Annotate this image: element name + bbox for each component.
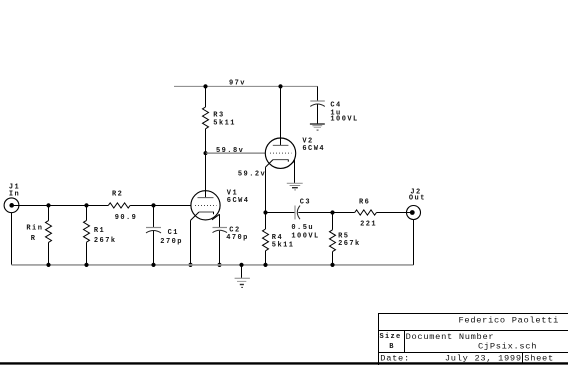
node 97v rail wire — [174, 85, 318, 87]
ground symbol main — [235, 278, 250, 287]
junction R4 bottom — [263, 263, 267, 267]
wire V2 cathode ground lead — [294, 160, 296, 184]
wire J2 down to rail — [413, 220, 415, 265]
ground under V2 — [287, 183, 303, 190]
svg-text:R3: R3 — [213, 111, 224, 119]
wire ground rail — [12, 264, 414, 266]
junction R5 bottom — [330, 263, 334, 267]
junction R5 top — [330, 210, 334, 214]
svg-text:267k: 267k — [94, 237, 117, 245]
junction V1 cathode rail — [188, 263, 192, 267]
resistor Rin — [46, 205, 52, 265]
svg-text:59.2v: 59.2v — [238, 170, 266, 178]
svg-text:Document Number: Document Number — [406, 332, 495, 342]
junction Rin bottom — [46, 263, 50, 267]
page bottom border — [0, 362, 568, 364]
svg-text:Out: Out — [409, 195, 426, 203]
svg-text:6CW4: 6CW4 — [302, 145, 325, 153]
svg-text:R6: R6 — [359, 198, 370, 206]
triode V1 — [191, 191, 221, 221]
triode V2 — [265, 138, 295, 168]
junction at R3 top — [203, 84, 207, 88]
svg-text:90.9: 90.9 — [115, 214, 138, 222]
resistor R5 — [330, 213, 336, 265]
junction C1 top — [151, 203, 155, 207]
svg-text:270p: 270p — [160, 238, 183, 246]
wire V2 plate lead — [280, 86, 282, 145]
svg-text:Date:: Date: — [380, 353, 410, 363]
resistor R6 — [355, 210, 412, 215]
ground rail stub — [241, 265, 243, 278]
node 59.8v junction — [204, 151, 208, 155]
svg-text:97v: 97v — [229, 80, 246, 88]
svg-text:C1: C1 — [168, 229, 179, 237]
svg-text:R1: R1 — [94, 227, 105, 235]
svg-text:Sheet: Sheet — [524, 354, 554, 364]
resistor R1 — [84, 205, 90, 265]
svg-text:470p: 470p — [226, 234, 249, 242]
svg-text:CjPsix.sch: CjPsix.sch — [478, 342, 537, 352]
svg-text:6CW4: 6CW4 — [227, 197, 250, 205]
resistor R2 — [108, 203, 191, 208]
wire J1 to R2 — [12, 204, 108, 206]
capacitor C2 — [213, 228, 228, 265]
resistor R4 — [263, 213, 269, 265]
wire 97v rail to C4 — [317, 86, 319, 101]
wire J1 down — [11, 213, 13, 265]
wire C3 left — [266, 212, 296, 214]
junction C3 left node — [263, 210, 267, 214]
svg-text:Rin: Rin — [26, 225, 43, 233]
svg-text:R2: R2 — [112, 191, 123, 199]
svg-text:C3: C3 — [300, 198, 311, 206]
svg-text:100VL: 100VL — [291, 232, 319, 240]
wire V1 cathode to C2 — [219, 214, 221, 227]
junction C2 rail — [217, 263, 221, 267]
wire V1 cathode to ground rail — [190, 220, 192, 265]
svg-text:In: In — [9, 191, 20, 199]
svg-text:0.5u: 0.5u — [291, 224, 314, 232]
svg-text:Size: Size — [380, 333, 402, 341]
wire V1 plate lead — [205, 153, 207, 197]
ground under C4 — [310, 124, 325, 130]
junction ground stub — [239, 263, 243, 267]
junction R1 bottom — [84, 263, 88, 267]
svg-text:July 23, 1999: July 23, 1999 — [445, 354, 522, 364]
svg-text:B: B — [389, 343, 395, 351]
svg-text:100VL: 100VL — [330, 115, 358, 123]
wire V2 cathode down to C3 node — [265, 167, 267, 212]
junction at V2 plate — [278, 84, 282, 88]
svg-text:267k: 267k — [338, 240, 361, 248]
svg-text:5k11: 5k11 — [272, 241, 295, 249]
junction Rin top — [46, 203, 50, 207]
svg-text:5k11: 5k11 — [213, 120, 236, 128]
svg-text:R: R — [31, 235, 37, 243]
junction R1 top — [84, 203, 88, 207]
capacitor C1 — [146, 205, 161, 265]
resistor R3 — [203, 86, 209, 153]
capacitor C3 — [295, 206, 300, 220]
wire 59.8v node to V2 grid — [206, 152, 266, 154]
svg-text:C4: C4 — [330, 102, 341, 110]
svg-text:221: 221 — [360, 220, 377, 228]
connector J1 — [4, 198, 19, 213]
wire C3 right to R6 — [298, 212, 354, 214]
svg-text:Federico Paoletti: Federico Paoletti — [459, 316, 560, 326]
connector J2 — [407, 206, 421, 220]
junction C1 bottom — [151, 263, 155, 267]
title block frame — [378, 314, 568, 365]
capacitor C4 — [310, 101, 325, 124]
